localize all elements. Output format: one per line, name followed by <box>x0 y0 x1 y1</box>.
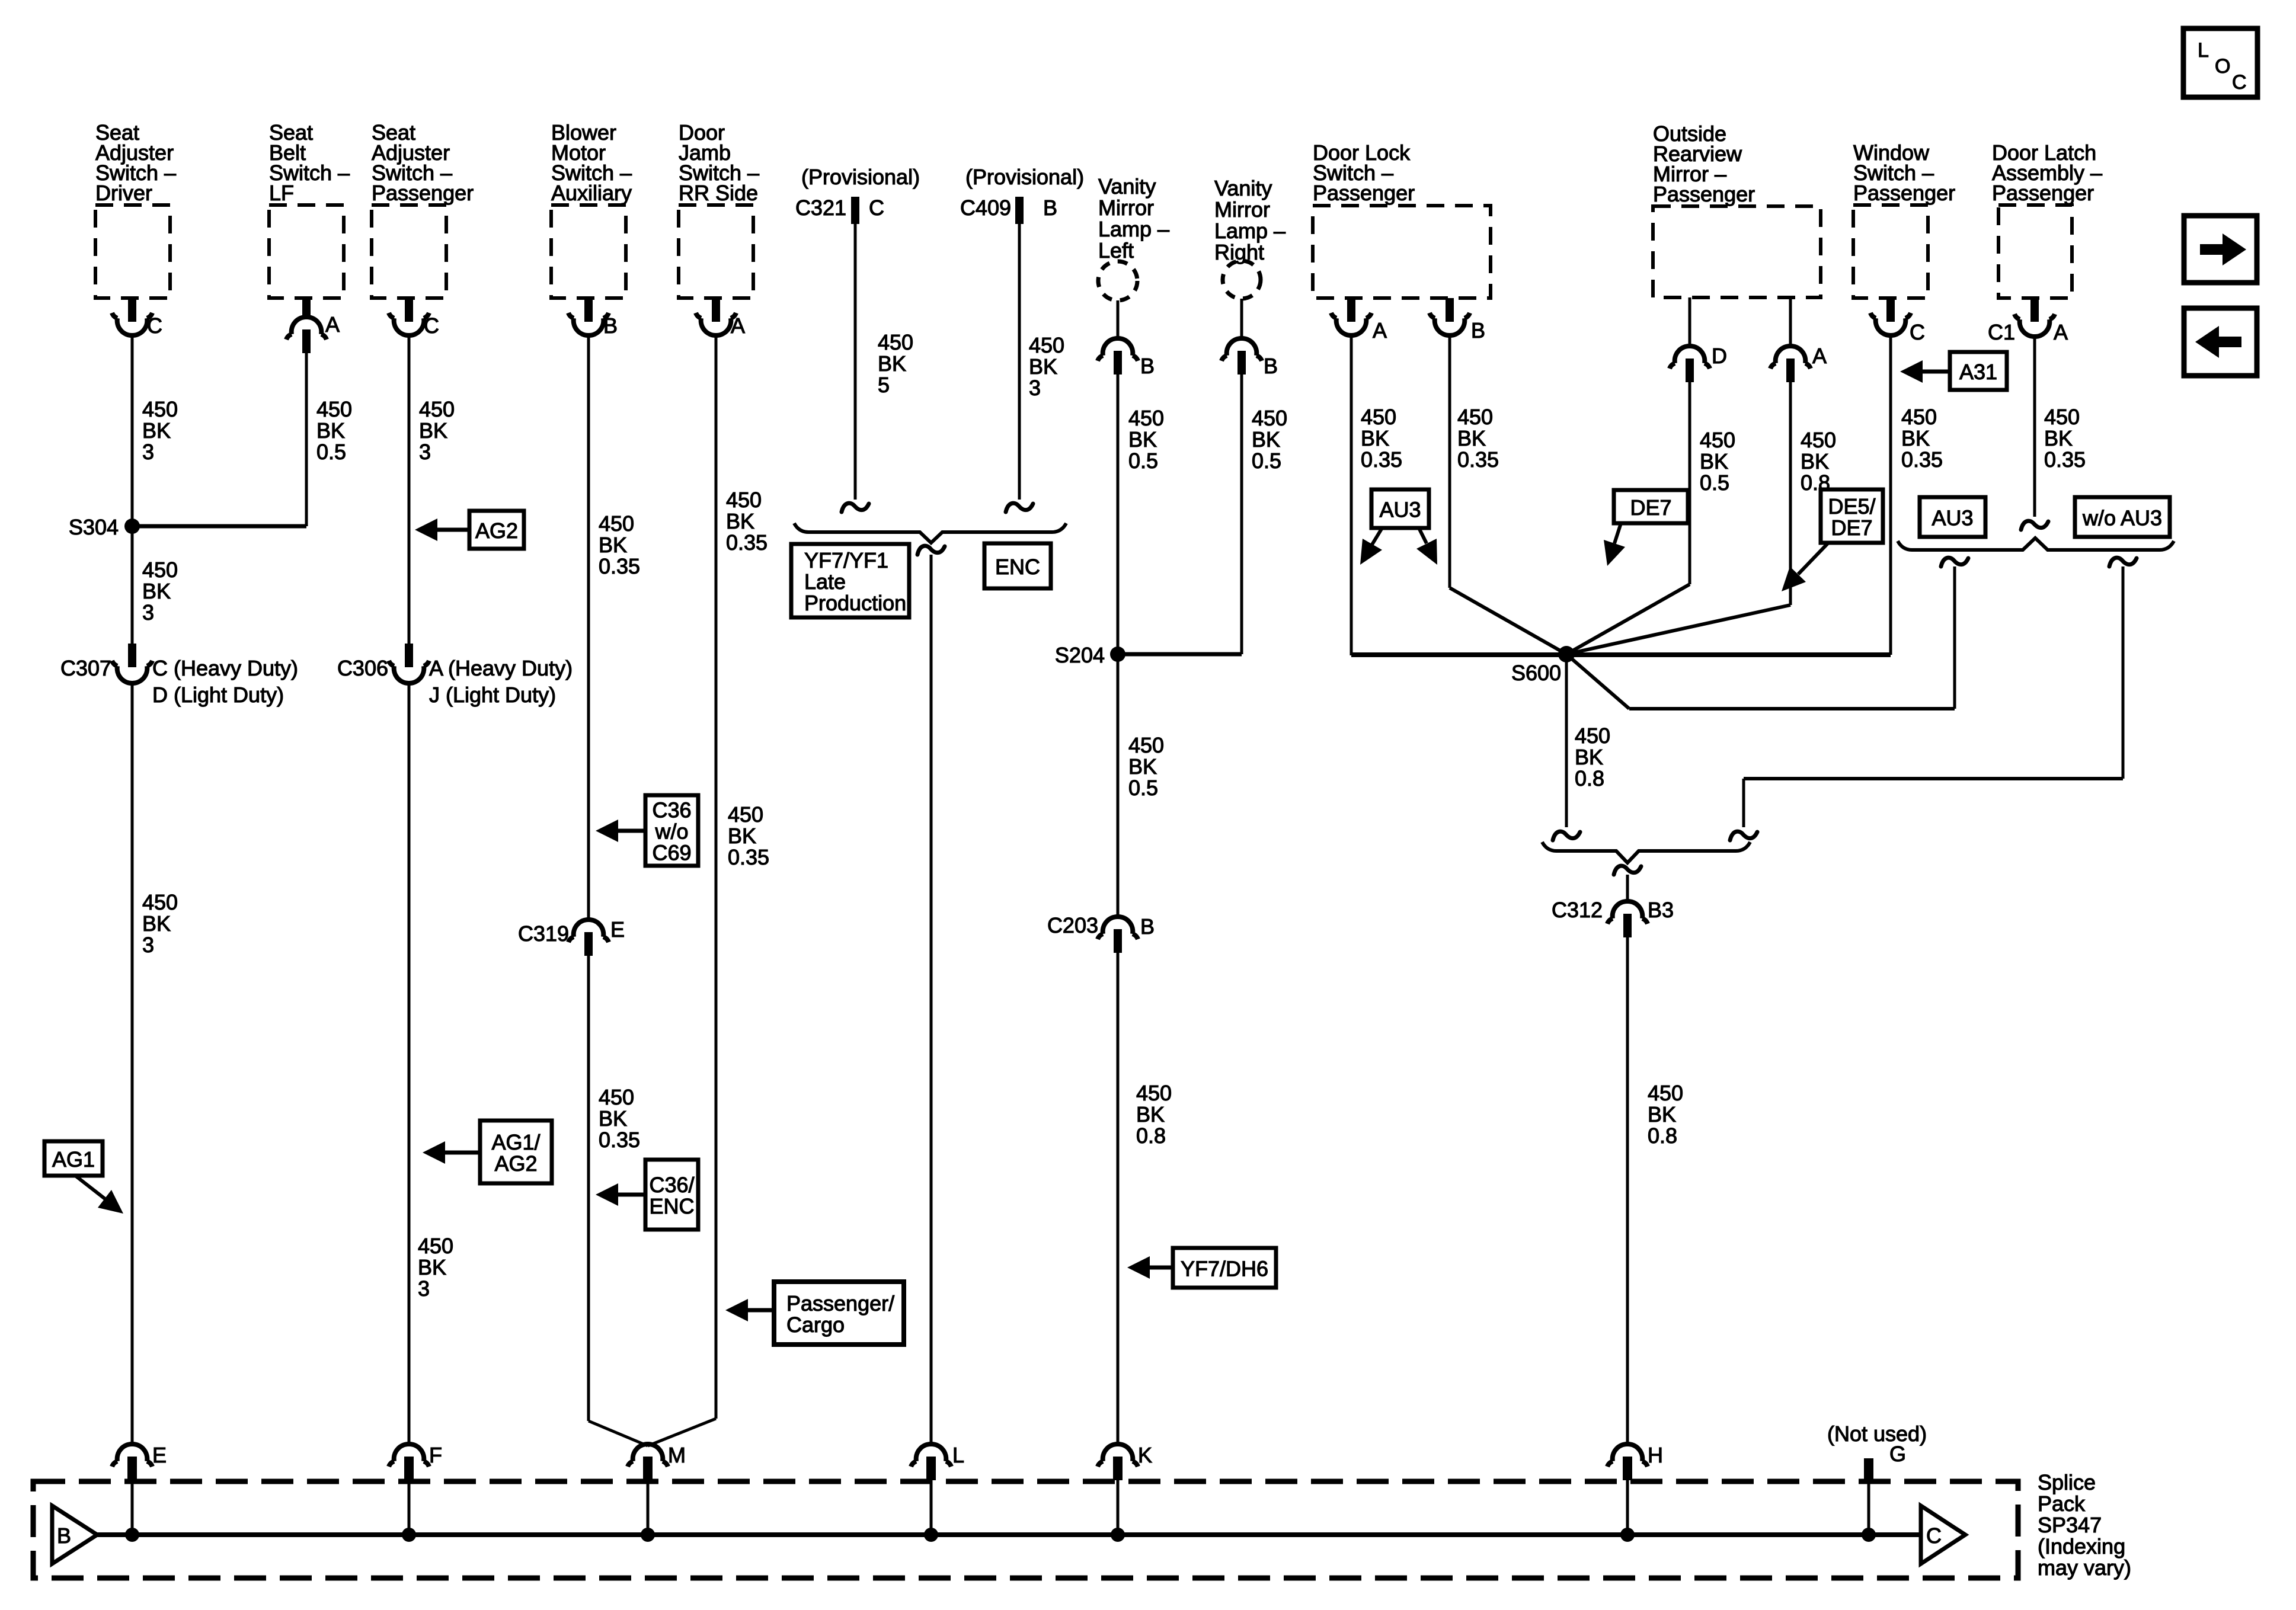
svg-text:LF: LF <box>269 181 294 205</box>
circuit option box ENC <box>984 543 1051 588</box>
splice pack label text <box>2038 1470 2131 1580</box>
wire 450 BK 0.8 from mirror A to S600 <box>1789 382 1792 605</box>
circuit option box YF7/YF1 Late Production <box>791 544 909 617</box>
wire from S204 to vanity right branch <box>1118 652 1242 657</box>
svg-text:Cargo: Cargo <box>786 1313 845 1337</box>
svg-text:C: C <box>1926 1523 1942 1548</box>
svg-text:K: K <box>1138 1443 1152 1467</box>
connector C1 pin A of Door Latch Assembly <box>1988 298 2068 344</box>
svg-text:BK: BK <box>418 1255 446 1279</box>
svg-text:may vary): may vary) <box>2038 1555 2131 1580</box>
wire 450 BK 0.8 from S600 down <box>1565 654 1568 827</box>
wire from options brace to splice pin L <box>930 555 933 1445</box>
svg-text:G: G <box>1889 1442 1906 1466</box>
svg-text:450: 450 <box>1128 733 1164 757</box>
svg-text:B: B <box>1140 914 1155 939</box>
wire pin K to splice bus <box>1117 1480 1120 1535</box>
bus junction dot at K <box>1111 1528 1125 1542</box>
svg-text:L: L <box>952 1443 964 1467</box>
svg-text:C307: C307 <box>60 656 111 680</box>
svg-text:AG1/: AG1/ <box>491 1130 540 1154</box>
component box: Door Jamb Switch - RR Side <box>679 120 759 298</box>
connector pin A of Door Lock Switch <box>1331 298 1387 343</box>
label 450 BK 3 (wire 1 upper) <box>142 397 178 464</box>
bus junction dot at F <box>402 1528 416 1542</box>
svg-text:450: 450 <box>599 511 634 536</box>
svg-text:3: 3 <box>142 440 154 464</box>
svg-text:F: F <box>429 1443 442 1467</box>
svg-text:BK: BK <box>1252 427 1280 452</box>
svg-text:450: 450 <box>1136 1081 1172 1105</box>
bus junction dot at G <box>1862 1528 1876 1542</box>
label 450 BK 0.5 (wire 2) <box>316 397 352 464</box>
wire 450 BK 0.8 from C203 to splice pin K <box>1117 953 1120 1445</box>
wire 450 BK 3 from S304 to C307 <box>131 526 134 645</box>
svg-text:BK: BK <box>142 579 171 603</box>
legend left-arrow box <box>2184 308 2257 376</box>
svg-text:A: A <box>731 313 745 338</box>
break squiggle at end of w/o AU3 wire <box>1730 831 1757 840</box>
svg-text:BK: BK <box>1361 426 1389 450</box>
svg-text:450: 450 <box>1029 333 1064 357</box>
label 450 BK 0.5 (wire 12) <box>1700 428 1735 495</box>
provisional connector C409 pin B <box>960 165 1084 224</box>
svg-text:ENC: ENC <box>995 555 1040 579</box>
svg-text:S304: S304 <box>69 515 119 539</box>
splice feed triangle C <box>1921 1506 1965 1564</box>
break squiggle at end of door latch wire <box>2021 521 2048 530</box>
svg-text:B: B <box>1140 354 1155 378</box>
svg-text:450: 450 <box>142 890 178 914</box>
svg-text:450: 450 <box>419 397 455 421</box>
svg-text:M: M <box>668 1443 686 1467</box>
wire pin L to splice bus <box>930 1480 933 1535</box>
connector pin C of Window Switch <box>1870 298 1925 344</box>
svg-text:BK: BK <box>1136 1102 1165 1126</box>
svg-text:450: 450 <box>599 1085 634 1109</box>
circuit label box AG2 with arrow to wire <box>415 511 524 549</box>
svg-text:Right: Right <box>1214 240 1264 264</box>
wire pin F to splice bus <box>408 1480 411 1535</box>
svg-text:0.5: 0.5 <box>1128 449 1158 473</box>
svg-text:AU3: AU3 <box>1379 498 1421 522</box>
label 450 BK 0.8 (S600 down wire) <box>1575 724 1610 790</box>
svg-text:BK: BK <box>1648 1102 1676 1126</box>
connector pin A of Outside Rearview Mirror <box>1770 297 1827 382</box>
circuit label box C36/ENC with arrow to wire <box>596 1160 698 1230</box>
svg-text:0.5: 0.5 <box>316 440 346 464</box>
svg-text:BK: BK <box>728 824 756 848</box>
circuit label box DE5/DE7 with arrow <box>1782 489 1883 591</box>
connector pin B of Vanity Mirror Lamp - Left <box>1098 300 1155 378</box>
svg-text:C306: C306 <box>337 656 388 680</box>
break squiggle at end of C321 wire <box>842 503 869 512</box>
break squiggle under w/o AU3 branch <box>2109 558 2137 566</box>
svg-text:(Provisional): (Provisional) <box>965 165 1084 189</box>
wire 450 BK 0.35 from door latch A to options brace <box>2033 335 2036 517</box>
wire 450 BK 0.35 from door lock A to S600 <box>1350 334 1353 655</box>
bus junction dot at L <box>924 1528 938 1542</box>
svg-text:C409: C409 <box>960 196 1011 220</box>
label 450 BK 3 (wire 7) <box>1029 333 1064 400</box>
svg-text:Vanity: Vanity <box>1098 174 1156 199</box>
svg-text:0.35: 0.35 <box>599 1128 640 1152</box>
wire pin E to splice bus <box>131 1480 134 1535</box>
svg-text:Passenger: Passenger <box>1653 182 1755 206</box>
splice pack pin E connector <box>112 1443 167 1480</box>
svg-text:C (Heavy Duty): C (Heavy Duty) <box>152 656 298 680</box>
svg-text:BK: BK <box>599 1106 627 1131</box>
svg-text:450: 450 <box>142 558 178 582</box>
svg-text:0.35: 0.35 <box>1901 447 1943 472</box>
wire 450 BK 0.35 from door jamb switch A to splice pin M <box>715 334 718 1419</box>
svg-text:BK: BK <box>1128 427 1157 452</box>
svg-text:B: B <box>1043 196 1057 220</box>
component box: Seat Adjuster Switch - Passenger <box>372 120 474 298</box>
options brace joining C321/C409 wires <box>794 523 1066 543</box>
svg-text:H: H <box>1648 1443 1663 1467</box>
svg-text:450: 450 <box>1361 405 1396 429</box>
label 450 BK 0.35 (wire 5 upper) <box>726 488 768 555</box>
component box: Window Switch - Passenger <box>1853 140 1955 298</box>
component box: Outside Rearview Mirror - Passenger <box>1653 121 1821 297</box>
wire pin M to splice bus <box>647 1480 650 1535</box>
circuit option box w/o AU3 <box>2075 497 2170 537</box>
svg-text:Passenger: Passenger <box>1313 181 1415 205</box>
svg-text:Lamp –: Lamp – <box>1214 219 1285 243</box>
wire 450 BK 0.5 from S204 to C203 <box>1117 654 1120 917</box>
svg-text:BK: BK <box>142 418 171 443</box>
svg-text:450: 450 <box>726 488 762 512</box>
wire from w/o AU3 branch down to second brace <box>2122 566 2125 779</box>
break squiggle at end of C409 wire <box>1006 503 1033 512</box>
svg-text:BK: BK <box>726 509 754 533</box>
options brace AU3 / w/o AU3 <box>1898 538 2174 550</box>
svg-text:0.8: 0.8 <box>1575 766 1604 790</box>
wire 450 BK 3 from driver seat adjuster C to S304 <box>131 334 134 526</box>
svg-text:0.5: 0.5 <box>1128 776 1158 800</box>
svg-text:B: B <box>1264 354 1278 378</box>
svg-text:BK: BK <box>1575 745 1603 769</box>
svg-text:A (Heavy Duty): A (Heavy Duty) <box>429 656 573 680</box>
svg-text:A: A <box>1812 344 1827 368</box>
junction S304 <box>69 515 140 539</box>
svg-text:Late: Late <box>804 569 846 594</box>
svg-text:Mirror: Mirror <box>1098 196 1154 220</box>
connector C306 pin A/J <box>337 644 573 707</box>
splice pack pin G (not used) <box>1827 1422 1927 1482</box>
svg-text:BK: BK <box>419 418 447 443</box>
svg-text:B: B <box>603 313 618 338</box>
svg-text:O: O <box>2215 55 2230 78</box>
provisional connector C321 pin C <box>795 165 920 224</box>
connector C319 pin E <box>518 917 625 956</box>
splice pack pin K connector <box>1098 1443 1152 1480</box>
label 450 BK 0.35 (wire 4 lower) <box>599 1085 640 1152</box>
circuit label box C36 w/o C69 with arrow to wire <box>596 795 698 866</box>
svg-text:Mirror: Mirror <box>1214 197 1270 222</box>
circuit option box AU3 <box>1920 497 1985 537</box>
wire pin G to splice bus <box>1868 1481 1870 1535</box>
label 450 BK 0.8 (wire 13) <box>1801 428 1836 495</box>
svg-text:C1: C1 <box>1988 320 2015 344</box>
svg-text:AG2: AG2 <box>475 518 518 543</box>
svg-text:C: C <box>2232 71 2247 94</box>
svg-text:S600: S600 <box>1511 661 1561 685</box>
label 450 BK 0.5 (wire 8 middle) <box>1128 733 1164 800</box>
svg-text:SP347: SP347 <box>2038 1513 2102 1537</box>
splice pack SP347 dashed outline <box>33 1481 2018 1578</box>
svg-text:450: 450 <box>2044 405 2080 429</box>
label 450 BK 0.35 (wire 4 upper) <box>599 511 640 578</box>
svg-text:450: 450 <box>418 1234 453 1258</box>
svg-text:C69: C69 <box>652 841 691 865</box>
label 450 BK 0.35 (wire 10) <box>1361 405 1402 472</box>
svg-text:BK: BK <box>316 418 345 443</box>
svg-text:A: A <box>1373 318 1387 343</box>
svg-text:Driver: Driver <box>95 181 152 205</box>
svg-text:A: A <box>325 312 340 337</box>
circuit label box AG1/AG2 with arrow to wire <box>423 1121 552 1183</box>
svg-text:3: 3 <box>1029 376 1041 400</box>
break squiggle at end of S600 down wire <box>1553 831 1580 840</box>
component box: Seat Belt Switch - LF <box>269 120 350 298</box>
svg-text:w/o: w/o <box>654 820 688 844</box>
label 450 BK 0.35 (wire 15) <box>2044 405 2086 472</box>
wire 450 BK 0.5 from mirror D to S600 <box>1689 382 1691 584</box>
label 450 BK 3 (wire 3 lower) <box>418 1234 453 1301</box>
wire 450 BK 0.35 from blower motor switch B to C319 <box>587 334 590 920</box>
svg-text:D (Light Duty): D (Light Duty) <box>152 683 284 707</box>
connector pin A of Seat Belt Switch - LF <box>286 298 340 353</box>
svg-text:J (Light Duty): J (Light Duty) <box>429 683 556 707</box>
svg-text:Left: Left <box>1098 238 1134 263</box>
bus junction dot at H <box>1620 1528 1635 1542</box>
component box: Seat Adjuster Switch - Driver <box>95 120 176 298</box>
svg-text:AG1: AG1 <box>52 1147 95 1172</box>
svg-text:3: 3 <box>419 440 431 464</box>
svg-text:BK: BK <box>1457 426 1486 450</box>
wire 450 BK 0.35 from C319 to splice pin M <box>587 956 590 1421</box>
svg-text:Lamp –: Lamp – <box>1098 217 1169 241</box>
bus junction dot at E <box>125 1528 139 1542</box>
wire 450 BK 0.5 from vanity right B to S204 <box>1240 375 1243 654</box>
label 450 BK 0.5 (wire 8 upper) <box>1128 406 1164 473</box>
svg-text:0.35: 0.35 <box>726 530 768 555</box>
connector pin B of Vanity Mirror Lamp - Right <box>1221 299 1278 378</box>
label 450 BK 3 (wire 1 middle) <box>142 558 178 625</box>
connector pin A of Door Jamb Switch <box>696 298 745 338</box>
svg-text:Splice: Splice <box>2038 1470 2096 1494</box>
svg-text:450: 450 <box>1648 1081 1683 1105</box>
legend right-arrow box <box>2184 216 2257 283</box>
svg-text:DE5/: DE5/ <box>1828 494 1875 518</box>
wire 450 BK 0.5 from seat belt switch A to S304 <box>305 353 308 526</box>
label 450 BK 0.5 (wire 9) <box>1252 406 1287 473</box>
label 450 BK 0.8 (wire 8 lower) <box>1136 1081 1172 1148</box>
wire 450 BK 0.5 from vanity left B to S204 <box>1117 375 1120 654</box>
splice pack pin L connector <box>911 1443 964 1480</box>
svg-text:(Not used): (Not used) <box>1827 1422 1927 1446</box>
svg-text:Passenger: Passenger <box>1992 181 2094 205</box>
svg-text:5: 5 <box>878 373 890 397</box>
svg-text:RR Side: RR Side <box>679 181 758 205</box>
label 450 BK 5 (wire 6) <box>878 330 913 397</box>
circuit label box AG1 with arrow to wire <box>44 1141 123 1214</box>
junction S204 <box>1055 643 1125 667</box>
svg-text:Passenger: Passenger <box>372 181 474 205</box>
svg-text:C36/: C36/ <box>649 1173 694 1197</box>
label 450 BK 0.8 (C312 wire) <box>1648 1081 1683 1148</box>
wire 450 BK 0.35 from door lock B to S600 <box>1448 334 1451 588</box>
connector pin B of Blower Motor Switch <box>568 298 618 338</box>
svg-text:450: 450 <box>1457 405 1493 429</box>
svg-text:(Provisional): (Provisional) <box>801 165 920 189</box>
svg-text:0.35: 0.35 <box>2044 447 2086 472</box>
component: Vanity Mirror Lamp - Left <box>1098 174 1169 300</box>
connector C307 pin C/D <box>60 644 298 707</box>
wire pin H to splice bus <box>1626 1480 1629 1535</box>
wire 450 BK 0.8 from C312 to splice pin H <box>1626 937 1629 1445</box>
svg-text:S204: S204 <box>1055 643 1105 667</box>
svg-text:AG2: AG2 <box>494 1151 537 1176</box>
svg-text:D: D <box>1712 344 1727 368</box>
svg-text:DE7: DE7 <box>1831 516 1872 540</box>
svg-text:0.5: 0.5 <box>1252 449 1281 473</box>
svg-text:BK: BK <box>1029 354 1057 379</box>
connector pin C of Seat Adjuster Switch - Passenger <box>389 298 439 338</box>
svg-text:ENC: ENC <box>649 1194 694 1218</box>
wire 450 BK 3 from C306 to splice pack pin F <box>408 681 411 1445</box>
splice bus wire <box>97 1532 1921 1537</box>
svg-text:3: 3 <box>418 1276 430 1301</box>
connector C312 pin B3 <box>1552 898 1674 937</box>
svg-text:Passenger: Passenger <box>1853 181 1955 205</box>
component box: Door Latch Assembly - Passenger <box>1992 140 2102 298</box>
svg-text:BK: BK <box>1801 449 1829 473</box>
svg-text:BK: BK <box>878 351 906 376</box>
svg-text:E: E <box>152 1443 167 1467</box>
splice pack pin F connector <box>389 1443 442 1480</box>
break squiggle under gathering brace <box>1614 866 1641 875</box>
svg-text:YF7/DH6: YF7/DH6 <box>1181 1257 1268 1281</box>
wire from AU3 branch to S600 <box>1953 566 1956 709</box>
splice pack pin M connector <box>628 1443 686 1480</box>
break squiggle under options brace <box>917 546 945 555</box>
svg-text:BK: BK <box>1128 754 1157 779</box>
svg-text:BK: BK <box>599 533 627 557</box>
connector pin B of Door Lock Switch <box>1430 298 1485 343</box>
label 450 BK 3 (wire 1 lower) <box>142 890 178 957</box>
svg-text:450: 450 <box>142 397 178 421</box>
svg-text:0.8: 0.8 <box>1648 1124 1677 1148</box>
svg-text:Auxiliary: Auxiliary <box>551 181 632 205</box>
svg-text:Passenger/: Passenger/ <box>786 1291 894 1315</box>
svg-text:3: 3 <box>142 933 154 957</box>
wire 450 BK 3 from passenger seat adjuster C to C306 <box>408 334 411 645</box>
svg-text:450: 450 <box>316 397 352 421</box>
svg-text:BK: BK <box>142 911 171 936</box>
svg-text:A: A <box>2054 320 2068 344</box>
svg-text:w/o AU3: w/o AU3 <box>2082 506 2162 530</box>
svg-text:Production: Production <box>804 591 906 615</box>
legend LOC box <box>2183 28 2257 97</box>
svg-text:A31: A31 <box>1959 360 1997 384</box>
svg-text:BK: BK <box>1700 449 1728 473</box>
component box: Door Lock Switch - Passenger <box>1313 140 1491 298</box>
svg-text:450: 450 <box>1128 406 1164 430</box>
svg-text:C: C <box>424 313 439 338</box>
wire S600 horizontal arm right to window switch wire <box>1566 652 1891 657</box>
wire 450 BK 3 from C409 stub <box>1018 223 1021 500</box>
svg-text:450: 450 <box>728 802 763 827</box>
svg-text:Pack: Pack <box>2038 1491 2086 1516</box>
svg-text:Vanity: Vanity <box>1214 176 1272 200</box>
wire S600 horizontal arm left to door lock A wire <box>1351 652 1566 657</box>
svg-text:E: E <box>610 917 625 942</box>
svg-text:450: 450 <box>1575 724 1610 748</box>
svg-text:(Indexing: (Indexing <box>2038 1534 2125 1558</box>
component: Vanity Mirror Lamp - Right <box>1214 176 1285 299</box>
svg-text:C321: C321 <box>795 196 846 220</box>
svg-text:0.35: 0.35 <box>1457 447 1499 472</box>
circuit label box A31 with arrow to wire <box>1900 352 2007 390</box>
gathering brace above C312 <box>1542 842 1750 863</box>
svg-text:C: C <box>147 313 162 338</box>
svg-text:B: B <box>57 1523 71 1548</box>
splice feed triangle B <box>52 1506 97 1564</box>
connector C203 pin B <box>1047 913 1155 953</box>
label 450 BK 0.35 (wire 11) <box>1457 405 1499 472</box>
break squiggle under AU3 branch <box>1941 558 1968 566</box>
svg-text:450: 450 <box>1252 406 1287 430</box>
component box: Blower Motor Switch - Auxiliary <box>551 120 632 298</box>
svg-text:B: B <box>1471 318 1485 343</box>
label 450 BK 3 (wire 3 upper) <box>419 397 455 464</box>
svg-text:0.8: 0.8 <box>1136 1124 1166 1148</box>
svg-text:450: 450 <box>1901 405 1937 429</box>
svg-text:C203: C203 <box>1047 913 1098 937</box>
svg-text:C: C <box>1910 320 1925 344</box>
circuit label box AU3 with two arrows <box>1360 489 1437 565</box>
splice pack pin H connector <box>1607 1443 1663 1480</box>
svg-text:3: 3 <box>142 600 154 625</box>
connector pin D of Outside Rearview Mirror <box>1670 297 1727 382</box>
svg-text:YF7/YF1: YF7/YF1 <box>804 548 888 572</box>
label 450 BK 0.35 (wire 5 lower) <box>728 802 769 869</box>
svg-text:AU3: AU3 <box>1932 506 1973 530</box>
svg-text:BK: BK <box>1901 426 1930 450</box>
svg-text:BK: BK <box>2044 426 2073 450</box>
svg-text:450: 450 <box>1700 428 1735 452</box>
wire 450 BK 5 from C321 stub <box>854 223 857 500</box>
circuit label box Passenger/Cargo with arrow to wire <box>725 1282 904 1345</box>
circuit label box DE7 with arrow <box>1604 490 1688 566</box>
wire 450 BK 3 from C307 to splice pack pin E <box>131 681 134 1445</box>
svg-text:0.35: 0.35 <box>1361 447 1402 472</box>
wire from S304 to seat belt switch branch <box>132 524 306 529</box>
circuit label box YF7/DH6 with arrow to wire <box>1127 1248 1276 1288</box>
svg-text:C312: C312 <box>1552 898 1603 922</box>
svg-text:450: 450 <box>878 330 913 354</box>
svg-text:C319: C319 <box>518 921 569 946</box>
connector pin C of Seat Adjuster Switch - Driver <box>112 298 162 338</box>
wire 450 BK 0.35 from window switch C to S600 <box>1889 334 1892 655</box>
svg-text:L: L <box>2198 39 2209 62</box>
svg-text:DE7: DE7 <box>1630 495 1671 520</box>
svg-text:C: C <box>869 196 884 220</box>
bus junction dot at M <box>641 1528 655 1542</box>
